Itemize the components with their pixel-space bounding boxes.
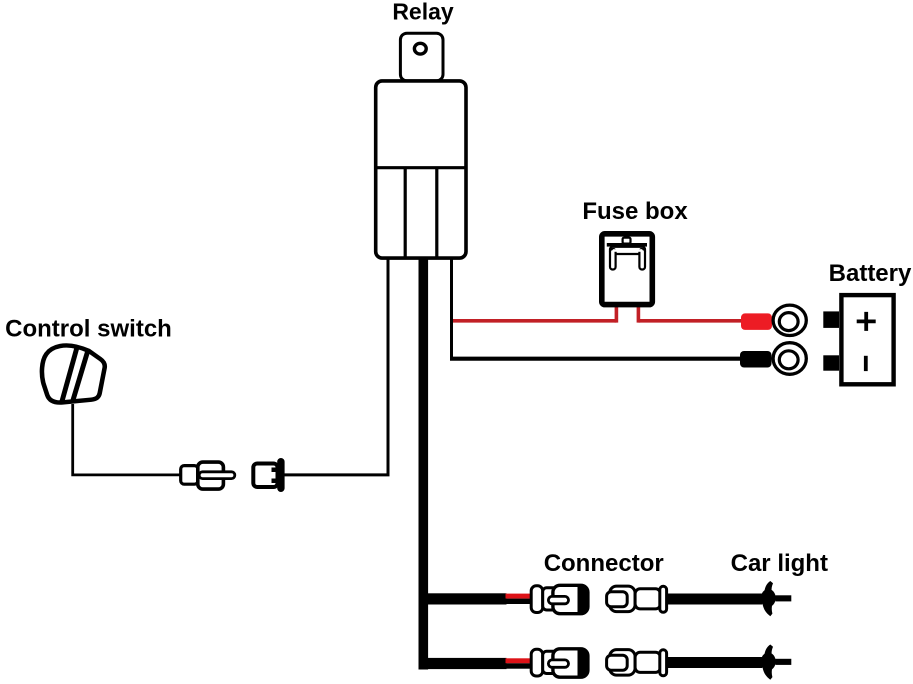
wire relay 87 trunk (thick output lead) — [419, 257, 429, 670]
ring terminal positive red sleeve — [741, 313, 772, 330]
battery negative terminal tab — [823, 355, 839, 370]
bullet connector male body — [198, 462, 224, 489]
connector P3 plug pin — [548, 660, 568, 667]
ring terminal negative outer ring — [773, 343, 806, 375]
control switch stripe 2 — [72, 352, 87, 403]
battery BT1 body — [841, 295, 893, 384]
fuse F1 right leg — [639, 249, 645, 270]
wire connector P2 to car light L1 — [666, 594, 763, 605]
connector P4 socket flange — [660, 650, 667, 676]
connector P1 plug body — [553, 585, 588, 613]
relay K1 terminal divider right — [435, 168, 438, 258]
connector P2 socket body — [635, 589, 660, 609]
battery minus mark — [864, 356, 868, 371]
connector P3 plug ferrule — [531, 649, 543, 676]
svg-text:Battery: Battery — [829, 260, 912, 287]
fuse F1 top tab — [623, 238, 631, 244]
connector P3 plug body — [553, 649, 588, 677]
bullet connector female flange — [277, 458, 284, 492]
connector P1 plug black cap — [578, 585, 588, 613]
wire upper black lead — [506, 599, 535, 604]
connector P4 socket body — [635, 652, 660, 672]
connector P2 socket inner tongue — [607, 592, 628, 607]
wire relay 30 down leg — [450, 258, 453, 359]
relay K1 mounting tab — [400, 33, 443, 81]
connector P1 plug mid shell — [543, 588, 558, 610]
ring terminal positive outer ring — [773, 305, 806, 335]
control switch SW1 body — [42, 345, 105, 402]
wire black to battery negative — [450, 357, 744, 361]
bullet connector male pin — [199, 472, 235, 479]
wire control switch to bullet connector — [73, 404, 182, 475]
connector P4 socket inner tongue — [607, 655, 628, 670]
fuse F1 element inner white — [613, 249, 643, 252]
connector P1 plug ferrule — [531, 586, 543, 613]
wire relay 86 to control switch connector — [283, 258, 388, 475]
bullet connector female body — [253, 464, 277, 488]
bullet connector female lower tooth — [272, 479, 278, 484]
relay K1 body — [376, 81, 466, 258]
wire branch lower to connector — [419, 658, 507, 669]
fuse F1 blade bar — [607, 243, 647, 247]
fuse box F1 housing — [602, 234, 653, 305]
svg-text:Car light: Car light — [731, 550, 828, 577]
car light L2 — [761, 645, 791, 680]
wire connector P4 to car light L2 — [666, 657, 763, 668]
wire lower black lead — [506, 663, 535, 668]
connector P3 plug black cap — [578, 649, 588, 677]
fuse F1 left leg — [610, 249, 616, 270]
ring terminal positive inner ring — [779, 313, 798, 331]
relay K1 terminal divider left — [404, 168, 407, 258]
car light L1 — [761, 581, 791, 616]
svg-text:Relay: Relay — [392, 0, 454, 25]
svg-text:Fuse box: Fuse box — [582, 198, 688, 225]
bullet connector female upper tooth — [272, 468, 278, 473]
connector P1 plug pin — [548, 596, 568, 603]
ring terminal negative inner ring — [779, 351, 798, 369]
relay K1 terminal section divider — [376, 166, 466, 169]
bullet connector male ferrule — [181, 466, 198, 485]
connector P4 socket outer shell — [610, 650, 636, 676]
connector P2 socket flange — [660, 586, 667, 612]
wire red fuse box right stub — [637, 306, 641, 323]
relay K1 mounting hole — [414, 43, 426, 54]
fuse F1 element bridge — [610, 247, 645, 254]
wire red relay to fuse box — [453, 319, 616, 323]
connector P2 socket outer shell — [610, 586, 636, 612]
wire lower red lead — [506, 658, 535, 663]
ring terminal negative black sleeve — [740, 351, 772, 368]
wire branch upper to connector — [419, 593, 507, 604]
wire red fuse box to battery positive — [638, 319, 748, 323]
wire upper red lead — [506, 594, 535, 599]
battery positive terminal tab — [823, 311, 839, 328]
control switch stripe 1 — [62, 347, 77, 402]
connector P3 plug mid shell — [543, 651, 558, 673]
svg-text:Connector: Connector — [544, 550, 664, 577]
wire red fuse box left stub — [615, 306, 619, 323]
svg-text:Control switch: Control switch — [5, 316, 172, 343]
battery plus mark — [857, 312, 876, 331]
